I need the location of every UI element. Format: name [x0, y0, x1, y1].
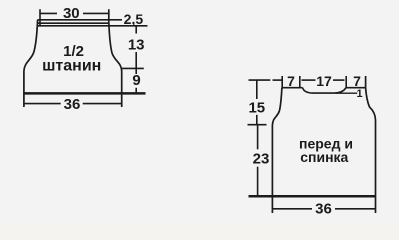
- waistband lower line extended under 2,5: [38, 25, 148, 27]
- dimension 23 lower segment: [257, 167, 259, 197]
- neck curve: [303, 88, 346, 93]
- dimension line 36 vest left segment: [272, 208, 312, 210]
- dimension line 9 lower segment: [135, 88, 137, 94]
- tick left of 30: [39, 9, 41, 26]
- svg-text:36: 36: [315, 201, 332, 218]
- dimension line 36 vest right segment: [335, 208, 376, 210]
- dimension 23 upper segment: [257, 125, 259, 150]
- svg-text:2,5: 2,5: [124, 11, 144, 27]
- left shoulder line: [282, 87, 303, 89]
- svg-text:15: 15: [248, 100, 265, 117]
- svg-text:36: 36: [64, 96, 81, 113]
- dimension line 9 upper segment: [135, 68, 137, 74]
- dash right of 17: [333, 79, 345, 81]
- svg-text:9: 9: [132, 72, 140, 89]
- svg-text:7: 7: [353, 73, 361, 89]
- crotch level tick: [121, 67, 144, 69]
- svg-text:спинка: спинка: [300, 149, 348, 165]
- left side edge of pant piece with 36-dim extension: [24, 20, 38, 107]
- right side edge of vest with 36-dim extension: [366, 76, 376, 213]
- right side edge of pant piece (continues 30-dim right tick) with 36-dim extension: [109, 9, 122, 107]
- armhole level tick: [248, 124, 267, 126]
- top reference line of vest dim: [249, 79, 271, 81]
- svg-text:штанин: штанин: [42, 58, 101, 75]
- top edge line: [38, 19, 123, 21]
- dimension line 30: [40, 12, 109, 14]
- svg-text:7: 7: [287, 73, 295, 89]
- left armhole edge and side seam with 36-dim extension: [272, 88, 282, 213]
- svg-text:17: 17: [316, 73, 332, 89]
- dash left of tick 7: [273, 79, 283, 81]
- dash left of 17: [302, 79, 316, 81]
- dimension 15 upper segment: [256, 80, 258, 99]
- dimension line 13 lower segment: [135, 52, 137, 68]
- tick 3: [345, 76, 347, 88]
- dimension line 13 upper segment: [135, 26, 137, 34]
- neck depth reference line: [336, 92, 358, 94]
- dimension line 36 right segment: [83, 103, 122, 105]
- bottom edge of pant piece extended right: [24, 92, 146, 95]
- svg-text:13: 13: [128, 37, 145, 54]
- bottom edge of vest extended left: [249, 195, 376, 198]
- dimension line 36 left segment: [24, 103, 61, 105]
- right shoulder line: [346, 87, 366, 89]
- tick 2: [299, 76, 301, 88]
- tick 1: [281, 76, 283, 88]
- dimension 15 lower segment: [256, 115, 258, 125]
- svg-text:23: 23: [253, 151, 270, 168]
- svg-text:1: 1: [357, 88, 363, 100]
- waistband middle line: [38, 22, 110, 24]
